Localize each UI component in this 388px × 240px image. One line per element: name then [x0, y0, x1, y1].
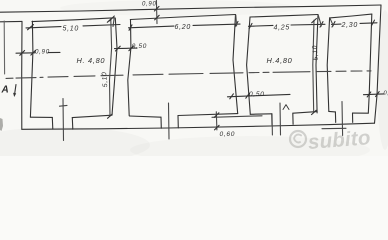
tick 0,90 top upper: [154, 6, 159, 11]
dimension 0,60 bottom vertical line: [215, 112, 218, 130]
wall outer right: [375, 5, 382, 123]
door jamb room4 right: [352, 113, 354, 122]
dimension 5,10 vertical room3 line: [313, 20, 314, 112]
door room3 caret mark: [283, 105, 289, 110]
wall room1 bottom inner left: [30, 116, 52, 118]
wall room4 bottom inner right: [353, 112, 369, 114]
tick 4,25 left: [249, 23, 252, 29]
extension room1 corner: [113, 18, 114, 27]
tick 0,50 wall23 a: [230, 94, 234, 99]
door jamb room3 left: [271, 114, 273, 125]
tick 5,10 left: [28, 25, 34, 30]
threshold line bottom right: [322, 127, 346, 129]
smudge left edge: [0, 118, 3, 131]
tick 0,90 top lower: [155, 15, 160, 20]
wall room1 top inner: [32, 18, 115, 22]
dimension 0,90 top vertical line: [155, 1, 158, 24]
svg-text:4,25: 4,25: [274, 25, 290, 32]
dimension 0,90 left line: [16, 51, 60, 54]
tick 0,50 wall12 a: [115, 46, 120, 51]
wall outer bottom: [22, 123, 375, 129]
svg-text:0,90: 0,90: [35, 48, 50, 55]
svg-text:6,20: 6,20: [175, 24, 191, 31]
wall bottom inner face lower line: [212, 116, 262, 118]
extension room2 right corner: [235, 15, 238, 26]
door room3 extension line left: [271, 114, 273, 135]
svg-text:5,10: 5,10: [63, 26, 79, 33]
tick 0,50 wall23 b: [246, 93, 250, 98]
svg-text:0,5: 0,5: [384, 91, 388, 97]
svg-text:subito: subito: [307, 126, 371, 154]
tick 2,30 right: [372, 20, 375, 26]
svg-text:2,30: 2,30: [341, 22, 358, 29]
wall room3 bottom inner right: [293, 112, 317, 114]
dimension 6,20 line left part: [129, 26, 175, 28]
wall room4 right inner: [368, 14, 372, 113]
section arrow A: [15, 85, 16, 95]
wall room3 top inner: [250, 15, 318, 18]
tick 4,25 right: [320, 22, 323, 28]
wall room2 right inner: [233, 15, 238, 114]
dimension 4,25 line right part: [291, 23, 325, 26]
dimension 0,50 wall12 line: [115, 47, 138, 50]
svg-text:0,60: 0,60: [220, 131, 236, 138]
door jamb room2 left: [160, 117, 162, 128]
svg-text:0,90: 0,90: [142, 1, 156, 7]
dimension 2,30 line right part: [360, 22, 377, 25]
tick right wall b: [376, 92, 380, 97]
wall room3 left inner: [247, 17, 251, 114]
paper background: [0, 0, 388, 156]
door room2 center line: [168, 103, 171, 139]
wall room4 left inner: [327, 18, 329, 112]
svg-text:5,10: 5,10: [311, 45, 319, 61]
svg-text:0,50: 0,50: [249, 91, 265, 98]
svg-text:H. 4,80: H. 4,80: [77, 56, 106, 65]
wall outer left: [21, 21, 23, 129]
left boundary stub: [3, 21, 5, 74]
tick 6,20 left: [129, 25, 132, 31]
tick 0,90 left a: [20, 51, 25, 56]
dimension 2,30 line left part: [332, 23, 342, 25]
dimension 5,10 line right part: [83, 25, 120, 26]
door jamb room3 right: [292, 113, 294, 124]
dimension 5,10 line left part: [26, 27, 61, 28]
extension room4 left corner: [330, 18, 333, 26]
tick 5,10 room3 top: [312, 19, 317, 23]
wall room2 bottom inner left: [129, 116, 161, 117]
tick 0,90 left b: [31, 50, 36, 55]
tick 0,60 upper: [214, 113, 219, 118]
dimension 6,20 line right part: [193, 24, 240, 25]
extension room3 right corner: [318, 15, 321, 26]
wall outer top: [0, 5, 381, 12]
dimension 4,25 line left part: [249, 24, 274, 27]
dimension right wall line: [364, 93, 385, 96]
door jamb room1 right: [71, 118, 74, 130]
door jamb room1 left: [51, 117, 54, 129]
tick 2,30 left: [332, 22, 335, 28]
wall room1 left inner: [30, 21, 33, 117]
tick 0,50 wall12 b: [129, 46, 134, 51]
wall room2 top inner: [130, 15, 235, 20]
door room4 center line: [341, 102, 344, 136]
dimension 0,50 wall23 line: [228, 94, 291, 96]
section line dashed: [6, 71, 371, 79]
tick 0,60 lower: [215, 125, 220, 130]
tick right wall a: [367, 92, 371, 97]
door room1 center line: [62, 99, 65, 141]
tick 6,20 right: [235, 21, 238, 27]
watermark subito logo circle: [290, 131, 306, 147]
door room3 extension line right: [279, 103, 282, 135]
wall room2 bottom inner right: [178, 114, 238, 116]
tick 5,10 right: [110, 16, 115, 21]
wall room4 top inner: [330, 14, 372, 18]
tick 5,10 room1 top: [107, 18, 112, 22]
svg-text:A: A: [1, 85, 10, 96]
svg-text:H.4,80: H.4,80: [267, 56, 293, 65]
tick 5,10 room3 bottom: [312, 110, 317, 114]
wall room2 left inner: [128, 20, 131, 116]
door jamb room4 left: [334, 112, 336, 123]
tick 5,10 room1 bottom: [108, 114, 113, 118]
wall room3 right inner: [316, 15, 318, 113]
wall room1 bottom inner right: [72, 115, 112, 117]
svg-text:5,10: 5,10: [101, 71, 109, 87]
dimension 5,10 vertical room1 line: [110, 20, 112, 117]
door jamb room2 right: [177, 116, 179, 128]
svg-text:0,50: 0,50: [132, 43, 147, 50]
wall room4 bottom inner left: [329, 110, 336, 113]
wall edge connector top left: [0, 20, 22, 22]
door room1 cross mark: [60, 104, 68, 107]
wall room3 bottom inner left: [250, 113, 271, 116]
wall room1 right inner: [112, 18, 117, 115]
